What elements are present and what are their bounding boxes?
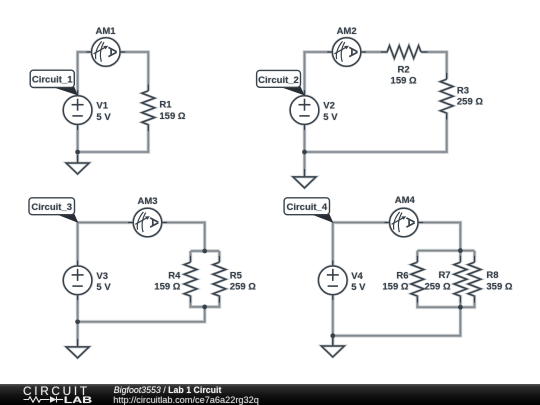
- svg-text:259 Ω: 259 Ω: [230, 282, 256, 293]
- svg-text:R2: R2: [398, 65, 410, 76]
- svg-text:V2: V2: [323, 101, 335, 112]
- svg-text:Circuit_2: Circuit_2: [258, 75, 299, 86]
- svg-text:R7: R7: [438, 270, 450, 281]
- svg-text:159 Ω: 159 Ω: [154, 282, 180, 293]
- svg-text:5 V: 5 V: [323, 112, 338, 123]
- svg-text:R5: R5: [230, 271, 243, 282]
- svg-text:R8: R8: [486, 270, 498, 281]
- svg-text:159 Ω: 159 Ω: [159, 111, 185, 122]
- svg-text:Circuit_4: Circuit_4: [286, 202, 327, 213]
- svg-text:V3: V3: [96, 271, 108, 282]
- svg-text:159 Ω: 159 Ω: [382, 282, 408, 293]
- svg-text:AM3: AM3: [137, 196, 157, 207]
- svg-text:Bigfoot3553 / Lab 1 Circuit: Bigfoot3553 / Lab 1 Circuit: [114, 385, 222, 395]
- svg-text:Circuit_1: Circuit_1: [32, 75, 73, 86]
- svg-text:259 Ω: 259 Ω: [457, 97, 483, 108]
- svg-text:5 V: 5 V: [351, 282, 366, 293]
- svg-text:R4: R4: [168, 271, 181, 282]
- svg-text:159 Ω: 159 Ω: [391, 76, 417, 87]
- svg-text:259 Ω: 259 Ω: [424, 281, 450, 292]
- svg-text:359 Ω: 359 Ω: [486, 281, 512, 292]
- svg-text:http://circuitlab.com/ce7a6a22: http://circuitlab.com/ce7a6a22rg32q: [113, 395, 259, 405]
- svg-text:AM2: AM2: [337, 26, 357, 37]
- svg-text:AM4: AM4: [395, 195, 416, 206]
- svg-text:5 V: 5 V: [96, 282, 111, 293]
- svg-text:R1: R1: [159, 99, 172, 110]
- svg-text:R3: R3: [457, 86, 469, 97]
- svg-text:R6: R6: [396, 271, 408, 282]
- svg-text:V4: V4: [351, 271, 363, 282]
- svg-text:Circuit_3: Circuit_3: [31, 202, 72, 213]
- svg-text:V1: V1: [96, 101, 108, 112]
- svg-text:5 V: 5 V: [96, 112, 111, 123]
- svg-text:LAB: LAB: [64, 395, 92, 405]
- svg-text:AM1: AM1: [95, 26, 116, 37]
